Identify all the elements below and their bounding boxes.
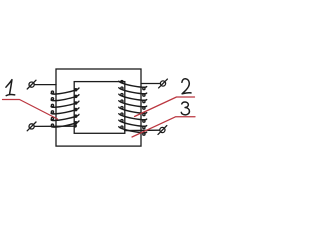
- terminal (top-right, lead 2): [159, 79, 168, 88]
- primary winding W1 turn knots (left coil): [51, 89, 76, 127]
- leader line for label 1: [3, 100, 58, 120]
- leader line for label 3: [132, 117, 195, 137]
- label 1: [6, 80, 15, 96]
- terminal (top-left, lead 1): [27, 80, 36, 89]
- label 2: [182, 79, 191, 94]
- transformer core outer rectangle: [56, 69, 141, 146]
- wire: top-left terminal to primary winding: [35, 84, 56, 86]
- wire: secondary winding to bottom-right terminal: [125, 129, 160, 131]
- terminal (bottom-left): [27, 122, 36, 131]
- wire: bottom-left terminal to primary winding: [35, 125, 76, 127]
- primary winding W1 front turns: [51, 88, 79, 127]
- label 3: [181, 102, 189, 115]
- terminal (bottom-right, lead 3): [158, 126, 167, 135]
- wire: secondary winding to top-right terminal: [141, 83, 160, 85]
- secondary winding W2 turn knots (right coil): [121, 81, 145, 136]
- transformer core inner rectangle (window): [74, 82, 125, 134]
- secondary winding W2 front turns: [119, 81, 147, 133]
- leader line for label 2: [135, 97, 195, 117]
